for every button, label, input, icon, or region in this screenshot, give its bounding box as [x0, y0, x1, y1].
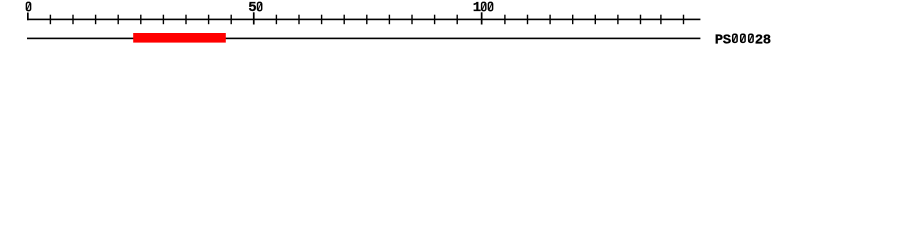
background: [0, 0, 900, 58]
tick 50 (major): [253, 12, 255, 24]
tick 0 (major): [27, 13, 29, 21]
svg-text:8: 8: [763, 32, 771, 48]
minor ticks every 5 residues: [50, 15, 685, 25]
ruler axis line: [27, 19, 700, 21]
tick 100 (major): [481, 12, 483, 24]
svg-text:S: S: [723, 32, 731, 48]
svg-text:5: 5: [248, 0, 256, 16]
sequence line: [27, 38, 700, 40]
label 0 : slashed zero glyph: [26, 2, 30, 10]
match feature block (red): [133, 33, 226, 43]
svg-text:1: 1: [473, 0, 481, 16]
